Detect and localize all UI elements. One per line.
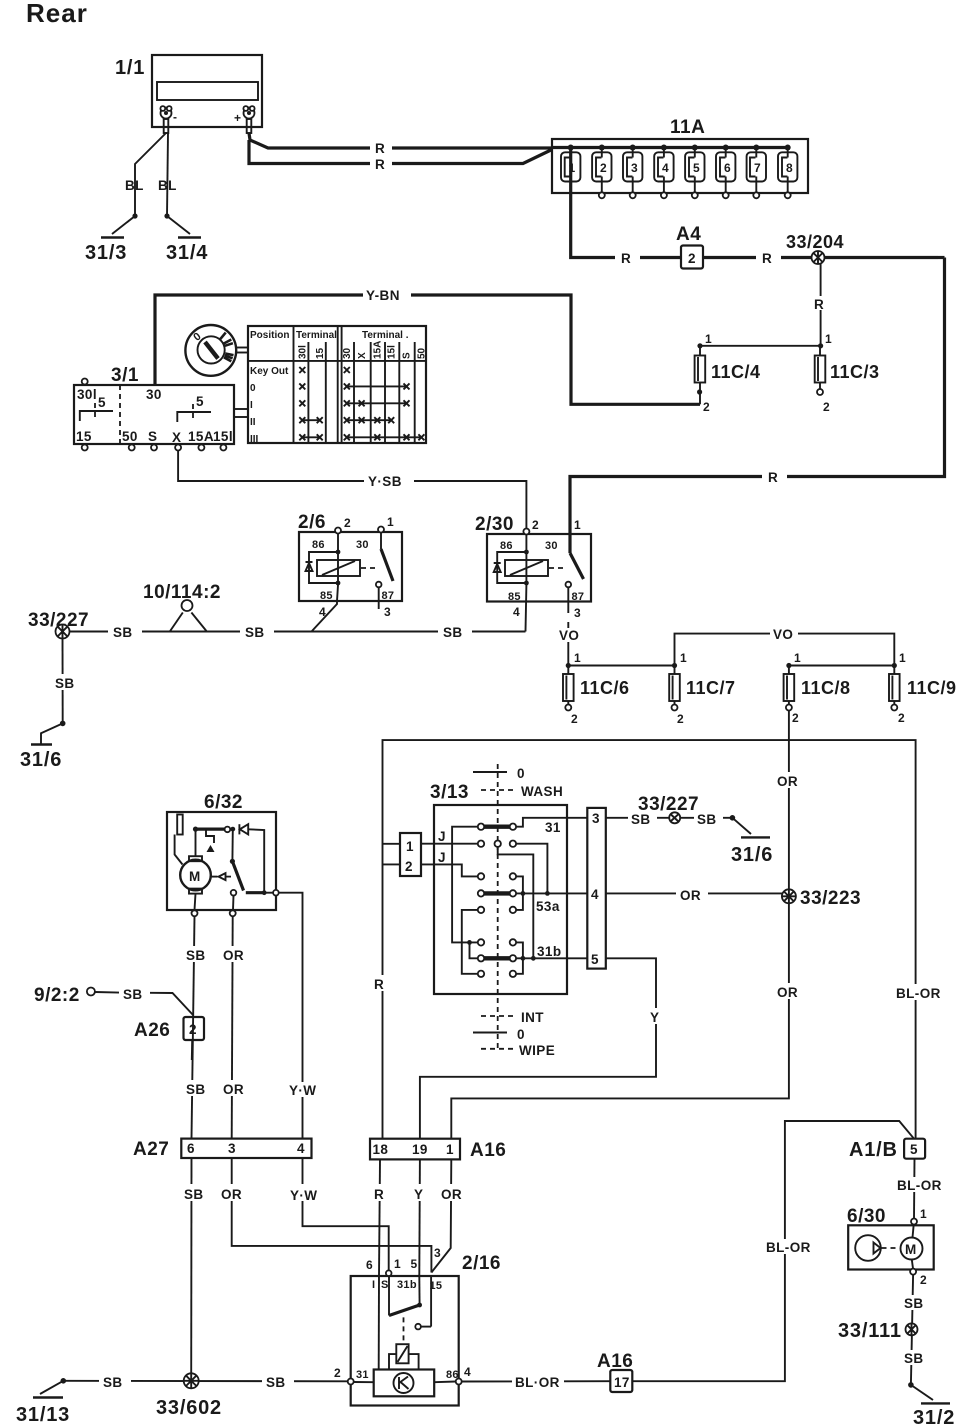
node junction 31/4 xyxy=(164,213,169,218)
park switch 6/32 xyxy=(230,829,279,895)
svg-text:Terminal: Terminal xyxy=(296,330,337,341)
label OR xyxy=(676,886,708,903)
labels below A27 xyxy=(181,1184,324,1203)
labels below A16 xyxy=(371,1184,469,1202)
node junction 31/6 xyxy=(60,721,66,727)
svg-text:M: M xyxy=(905,1242,917,1257)
svg-text:X: X xyxy=(172,430,181,445)
wire Y-SB ignition X to 2/30 pin 2 xyxy=(178,451,526,530)
svg-text:30: 30 xyxy=(356,539,369,551)
wire 11C/6 to 11C/7 pin 1 xyxy=(568,665,674,667)
wire OR 6/32 to A27 pin 3 xyxy=(232,916,233,1138)
svg-text:10/114:2: 10/114:2 xyxy=(143,582,221,603)
svg-text:3: 3 xyxy=(434,1246,441,1260)
svg-text:15A: 15A xyxy=(188,429,214,444)
label SB xyxy=(99,1373,131,1390)
svg-text:A16: A16 xyxy=(470,1140,506,1161)
svg-text:2/30: 2/30 xyxy=(475,514,514,535)
wire VO bus 11C/7 to 11C/9 xyxy=(675,634,895,666)
3/13 row G contacts xyxy=(478,971,516,977)
relay 2/6 coil xyxy=(306,534,378,586)
svg-text:R: R xyxy=(814,297,824,312)
svg-text:OR: OR xyxy=(777,774,798,789)
node junction C vertical on 53a xyxy=(521,891,526,896)
svg-text:3/1: 3/1 xyxy=(111,365,139,386)
svg-text:R: R xyxy=(375,141,385,156)
svg-text:SB: SB xyxy=(266,1375,286,1390)
svg-text:SB: SB xyxy=(55,676,75,691)
svg-text:I: I xyxy=(372,1279,375,1291)
svg-text:3: 3 xyxy=(574,606,581,620)
svg-text:SB: SB xyxy=(904,1296,924,1311)
link 3/1 to table xyxy=(234,409,248,417)
contact 5 left xyxy=(76,395,113,444)
wire R 33/204 down to 11C/3 xyxy=(820,264,822,346)
wire BL-OR A16/17 up to A1/B xyxy=(632,1121,914,1381)
wire motor SB down xyxy=(195,894,196,910)
svg-text:Terminal .: Terminal . xyxy=(362,330,409,341)
wire stub to 3/13 pin 2 xyxy=(383,863,401,865)
svg-text:3: 3 xyxy=(228,1141,236,1156)
ground 31/3 xyxy=(85,216,135,264)
svg-text:30: 30 xyxy=(545,540,558,552)
wire VO 2/30 pin 3 to lamps xyxy=(567,622,569,666)
node 11C/8 pin 1 xyxy=(786,663,791,668)
svg-text:11C/4: 11C/4 xyxy=(711,362,761,382)
relay 2/6 xyxy=(298,512,402,602)
svg-text:19: 19 xyxy=(412,1142,428,1157)
ignition position table xyxy=(248,326,428,445)
label VO xyxy=(557,628,581,643)
svg-text:2/6: 2/6 xyxy=(298,512,326,533)
svg-text:31: 31 xyxy=(545,820,561,835)
svg-text:2: 2 xyxy=(823,400,830,414)
svg-text:33/223: 33/223 xyxy=(800,888,861,909)
label R lower xyxy=(370,157,392,172)
node junction on 31b xyxy=(531,956,536,961)
svg-text:BL-OR: BL-OR xyxy=(896,986,941,1001)
washer pump 6/30 xyxy=(847,1206,934,1287)
wire row E right down to row G right xyxy=(516,942,523,973)
connector A26 pin 2 xyxy=(134,1017,204,1060)
svg-text:Y: Y xyxy=(650,1010,659,1025)
park contact plate xyxy=(177,815,183,835)
node junction on 31b line xyxy=(521,956,526,961)
connector 3/13 pins 3,4,5 xyxy=(587,808,606,969)
svg-text:15A: 15A xyxy=(373,341,384,359)
fuse 4 xyxy=(654,145,673,199)
svg-text:15l: 15l xyxy=(213,429,233,444)
relay 2/30 xyxy=(475,514,591,603)
label OR xyxy=(220,946,250,963)
svg-text:0: 0 xyxy=(517,766,525,781)
wire 2/30 pin 4 to SB bus xyxy=(513,585,526,632)
intermittent relay 2/16 xyxy=(351,1246,501,1406)
svg-text:3: 3 xyxy=(592,811,600,826)
svg-text:85: 85 xyxy=(320,590,333,602)
svg-text:2: 2 xyxy=(898,711,905,725)
svg-text:85: 85 xyxy=(508,591,521,603)
fuse 11C/6 xyxy=(563,651,630,726)
wire SB bus 33/227 to 2/30 pin 4 xyxy=(70,631,526,633)
wire R stub to 3/13 pin 1 xyxy=(383,843,401,845)
svg-text:Y·W: Y·W xyxy=(290,1188,317,1203)
terminal circles 3/1 xyxy=(82,445,227,451)
label SB xyxy=(438,624,472,640)
svg-text:1: 1 xyxy=(569,161,576,175)
svg-text:1: 1 xyxy=(794,651,801,665)
svg-text:0: 0 xyxy=(250,383,256,394)
svg-text:OR: OR xyxy=(223,948,244,963)
svg-text:33/204: 33/204 xyxy=(786,232,844,252)
svg-text:11C/9: 11C/9 xyxy=(907,678,957,698)
svg-text:A27: A27 xyxy=(133,1139,169,1160)
svg-text:R: R xyxy=(375,157,385,172)
svg-text:2/16: 2/16 xyxy=(462,1253,501,1274)
label R xyxy=(762,469,787,485)
wire V2 down to row 31b xyxy=(470,942,478,958)
svg-text:A16: A16 xyxy=(597,1351,633,1372)
connector 9/2:2 xyxy=(34,985,194,1016)
wire R / BL-OR top run xyxy=(383,740,916,1139)
svg-text:A26: A26 xyxy=(134,1020,170,1041)
svg-text:BL-OR: BL-OR xyxy=(766,1240,811,1255)
svg-text:4: 4 xyxy=(464,1365,471,1379)
svg-text:11C/6: 11C/6 xyxy=(580,678,630,698)
svg-text:1/1: 1/1 xyxy=(115,57,145,79)
wire BL-OR A1/B to 6/30 xyxy=(913,1159,916,1218)
motor supply bar xyxy=(193,827,235,833)
label SB xyxy=(240,624,274,640)
wire row 31b to pin 5 xyxy=(516,957,587,959)
fuse box 11A xyxy=(552,117,808,193)
ground 31/13 xyxy=(16,1381,70,1424)
svg-text:2: 2 xyxy=(571,712,578,726)
wire SB 33/227 down to 31/6 xyxy=(62,639,64,724)
svg-text:A1/B: A1/B xyxy=(849,1139,898,1161)
label R upper xyxy=(370,141,392,156)
wire row31 right to pin 3 xyxy=(516,818,587,827)
svg-text:R: R xyxy=(374,1187,384,1202)
wire SB 3/13 pin 3 to 33/227 right xyxy=(606,817,733,819)
svg-text:50: 50 xyxy=(417,347,428,359)
svg-text:5: 5 xyxy=(196,394,204,409)
battery plus terminal xyxy=(243,106,254,133)
splice 33/223 xyxy=(782,888,861,909)
svg-text:6/32: 6/32 xyxy=(204,792,243,813)
label BL-OR xyxy=(895,1177,942,1193)
fuse 11C/9 xyxy=(889,651,957,725)
svg-text:2: 2 xyxy=(344,516,351,530)
svg-text:OR: OR xyxy=(221,1187,242,1202)
2/16 switch xyxy=(389,1276,431,1343)
battery 1/1 xyxy=(115,55,262,127)
svg-text:R: R xyxy=(768,470,778,485)
svg-text:OR: OR xyxy=(680,888,701,903)
svg-text:Position: Position xyxy=(250,330,289,341)
svg-text:Key Out: Key Out xyxy=(250,366,289,377)
label SB xyxy=(262,1373,294,1390)
fuse 11C/8 xyxy=(784,651,851,725)
svg-text:33/227: 33/227 xyxy=(638,794,699,815)
label Y-W xyxy=(286,1082,324,1098)
svg-text:6: 6 xyxy=(724,161,731,175)
svg-text:Rear: Rear xyxy=(26,0,88,28)
2/16 pin 4 / 86 xyxy=(434,1365,471,1385)
svg-text:III: III xyxy=(250,434,259,445)
wiper motor 6/32 xyxy=(167,792,276,910)
wire row J1 center down to 31b xyxy=(498,847,534,958)
svg-text:Y: Y xyxy=(414,1187,423,1202)
svg-text:30: 30 xyxy=(146,387,162,402)
svg-text:Y·W: Y·W xyxy=(289,1083,316,1098)
fuse 7 xyxy=(747,145,766,199)
svg-text:87: 87 xyxy=(382,590,395,602)
3/13 row 31 contacts xyxy=(478,820,561,835)
svg-text:OR: OR xyxy=(223,1082,244,1097)
3/13 row J2 contacts xyxy=(478,873,516,879)
svg-text:4: 4 xyxy=(319,605,326,619)
svg-text:30l: 30l xyxy=(77,387,97,402)
wire BL battery to 31/3 xyxy=(135,133,166,216)
wire 11C/8 pin 2 OR down to 33/223 xyxy=(788,711,790,897)
svg-text:VO: VO xyxy=(773,627,793,642)
3/13 row E contacts xyxy=(478,939,516,945)
node junction 31/2 xyxy=(908,1382,914,1388)
label Y xyxy=(647,1008,665,1025)
svg-text:33/602: 33/602 xyxy=(156,1397,222,1419)
wire R battery to fuse box (lower) xyxy=(249,140,552,164)
svg-text:86: 86 xyxy=(312,539,325,551)
fuse 1 xyxy=(561,145,580,194)
ground 31/4 xyxy=(166,216,208,264)
svg-text:1: 1 xyxy=(899,651,906,665)
svg-text:31: 31 xyxy=(356,1369,369,1381)
svg-text:SB: SB xyxy=(904,1351,924,1366)
connector A1/B pin 5 xyxy=(849,1139,925,1161)
wire OR A16 pin1 down to 2/16 pin 3 xyxy=(431,1159,451,1272)
connector A16 pin 17 xyxy=(597,1351,633,1392)
svg-text:30l: 30l xyxy=(298,345,309,359)
svg-text:31b: 31b xyxy=(397,1279,417,1291)
svg-text:6: 6 xyxy=(187,1141,195,1156)
node pin1 11C/4 xyxy=(697,343,702,348)
svg-text:7: 7 xyxy=(754,161,761,175)
terminal labels 3/1 xyxy=(122,429,233,445)
wire OR 33/223 down to A16 pin 1 xyxy=(451,903,789,1138)
wire R battery to fuse box (upper) xyxy=(249,133,552,148)
table row marks xyxy=(299,367,424,440)
svg-text:11C/8: 11C/8 xyxy=(801,678,851,698)
svg-text:X: X xyxy=(357,352,368,359)
3/13 row 31b contacts xyxy=(478,944,562,962)
wire pin 1 to row J1 xyxy=(421,843,478,845)
svg-text:5: 5 xyxy=(411,1257,418,1271)
relay 2/6 switch xyxy=(376,533,393,620)
svg-text:5: 5 xyxy=(693,161,700,175)
svg-text:-: - xyxy=(173,110,177,124)
svg-text:86: 86 xyxy=(500,540,513,552)
svg-text:J: J xyxy=(438,829,446,844)
splice 33/602 xyxy=(156,1373,222,1419)
svg-text:87: 87 xyxy=(572,591,585,603)
node junction on 53a xyxy=(545,891,550,896)
wiper switch 3/13 xyxy=(430,764,567,1050)
battery minus terminal xyxy=(160,106,171,133)
relay 2/30 switch xyxy=(566,534,584,620)
svg-text:3/13: 3/13 xyxy=(430,782,469,803)
connector 10/114:2 xyxy=(143,582,221,632)
wire Y 3/13 pin 5 to A16 pin 19 xyxy=(420,958,656,1138)
svg-text:6/30: 6/30 xyxy=(847,1206,886,1227)
switch position legend bottom xyxy=(473,1010,555,1058)
svg-text:INT: INT xyxy=(521,1010,544,1025)
connector A4 pin 2 xyxy=(676,224,703,269)
label SB xyxy=(183,1080,208,1097)
label SB xyxy=(183,946,208,963)
svg-text:5: 5 xyxy=(910,1142,918,1157)
svg-text:SB: SB xyxy=(186,948,206,963)
wire pin 2 to row J2 xyxy=(421,864,478,876)
label OR xyxy=(774,983,804,1000)
svg-text:2: 2 xyxy=(189,1022,197,1037)
svg-text:II: II xyxy=(250,417,256,428)
svg-text:2: 2 xyxy=(600,161,607,175)
svg-text:1: 1 xyxy=(406,839,414,854)
svg-text:S: S xyxy=(402,352,413,359)
svg-text:1: 1 xyxy=(825,332,832,346)
svg-text:31/6: 31/6 xyxy=(20,749,62,771)
3/13 row D2 contacts xyxy=(478,907,516,913)
wire SB 6/30 to 33/111 xyxy=(911,1275,913,1385)
wire fuse1 down to A4 row xyxy=(571,193,681,258)
svg-text:2: 2 xyxy=(532,518,539,532)
wire R segment to right edge xyxy=(938,256,945,259)
splice 33/227 right xyxy=(638,794,699,823)
wire plate to motor xyxy=(175,835,183,865)
svg-text:15: 15 xyxy=(315,347,326,359)
wire 11C/8 to 11C/9 pin 1 xyxy=(789,665,894,667)
splice 33/227 xyxy=(28,610,89,639)
label OR xyxy=(774,772,804,789)
svg-text:SB: SB xyxy=(184,1187,204,1202)
diode 6/32 xyxy=(239,824,264,893)
svg-text:2: 2 xyxy=(703,400,710,414)
svg-text:SB: SB xyxy=(443,625,463,640)
svg-text:4: 4 xyxy=(513,605,520,619)
fuse 11C/3 xyxy=(815,332,880,414)
svg-text:1: 1 xyxy=(394,1257,401,1271)
label R xyxy=(615,250,640,266)
svg-text:+: + xyxy=(234,111,241,125)
svg-text:BL·OR: BL·OR xyxy=(515,1375,560,1390)
node junction 31/3 xyxy=(132,213,137,218)
svg-text:S: S xyxy=(381,1279,389,1291)
wire Y A16 pin19 down to 2/16 pin 5 xyxy=(418,1159,421,1276)
svg-text:J: J xyxy=(438,850,446,865)
svg-text:Y·SB: Y·SB xyxy=(368,474,402,489)
splice 33/204 xyxy=(786,232,844,265)
label BL-OR xyxy=(512,1373,564,1390)
svg-text:4: 4 xyxy=(297,1141,305,1156)
label BL-OR xyxy=(894,984,941,1001)
svg-text:OR: OR xyxy=(777,985,798,1000)
label R xyxy=(812,296,829,312)
node junction 31/13 xyxy=(61,1378,67,1384)
2/16 pin 6 lead xyxy=(378,1276,380,1370)
ignition key symbol xyxy=(185,325,248,376)
svg-text:0: 0 xyxy=(517,1027,525,1042)
svg-text:5: 5 xyxy=(591,952,599,967)
wire 2/6 pin 4 to SB bus xyxy=(312,585,339,632)
motor drive linkage xyxy=(211,873,231,880)
svg-text:R: R xyxy=(762,251,772,266)
relay 2/30 coil xyxy=(494,535,564,586)
svg-text:SB: SB xyxy=(186,1082,206,1097)
label R xyxy=(372,975,392,992)
svg-text:SB: SB xyxy=(123,987,143,1002)
label SB xyxy=(901,1295,929,1311)
label R xyxy=(756,250,781,266)
svg-text:2: 2 xyxy=(920,1273,927,1287)
svg-text:R: R xyxy=(621,251,631,266)
wire SB motor to A26 to A27 xyxy=(192,916,195,1138)
svg-text:33/111: 33/111 xyxy=(838,1320,902,1342)
svg-text:R: R xyxy=(374,977,384,992)
svg-text:15l: 15l xyxy=(386,345,397,359)
svg-text:6: 6 xyxy=(366,1258,373,1272)
wire OR 3/13 pin 4 to 33/223 xyxy=(606,892,789,894)
svg-text:1: 1 xyxy=(920,1207,927,1221)
wire Y-BN ignition 30 to 11C/4 pin 2 xyxy=(155,295,700,404)
svg-text:S: S xyxy=(148,429,157,444)
svg-text:17: 17 xyxy=(614,1375,630,1390)
node pin1 11C/3 xyxy=(818,343,823,348)
wire R A4 to 33/204 xyxy=(703,256,938,259)
svg-text:31/6: 31/6 xyxy=(731,844,773,866)
svg-text:50: 50 xyxy=(122,429,138,444)
2/16 pin 2 / 31 xyxy=(334,1366,374,1385)
wire Y-W 6/32 right to A27 pin 4 xyxy=(279,893,303,1139)
svg-text:30: 30 xyxy=(342,347,353,359)
fuse 6 xyxy=(716,145,735,199)
6/32 bottom terminals xyxy=(192,910,236,916)
ground 31/6 xyxy=(20,723,63,771)
svg-text:3: 3 xyxy=(384,605,391,619)
label SB xyxy=(694,810,723,827)
svg-text:1: 1 xyxy=(446,1142,454,1157)
svg-text:2: 2 xyxy=(334,1366,341,1380)
node junction 31/6 right xyxy=(730,815,736,821)
wire row31 left down to row E xyxy=(452,827,478,943)
fuse 2 xyxy=(592,145,611,199)
wire SB A27 pin6 down to 33/602 xyxy=(190,1158,192,1381)
svg-text:1: 1 xyxy=(387,515,394,529)
wire R A16 pin18 down to 2/16 pin 6 xyxy=(379,1159,380,1276)
label SB xyxy=(52,674,78,691)
wire R right edge down xyxy=(570,258,945,535)
fuse 3 xyxy=(623,145,642,199)
svg-text:1: 1 xyxy=(705,332,712,346)
3/13 row J1 contacts xyxy=(478,841,516,847)
connector A16 (18 19 1) xyxy=(370,1139,506,1161)
svg-text:1: 1 xyxy=(574,651,581,665)
wire row 53a to pin 4 xyxy=(516,892,587,894)
label BL-OR xyxy=(764,1239,811,1255)
svg-text:BL-OR: BL-OR xyxy=(897,1178,942,1193)
label Y-SB xyxy=(364,473,414,489)
ignition switch 3/1 xyxy=(74,365,234,444)
